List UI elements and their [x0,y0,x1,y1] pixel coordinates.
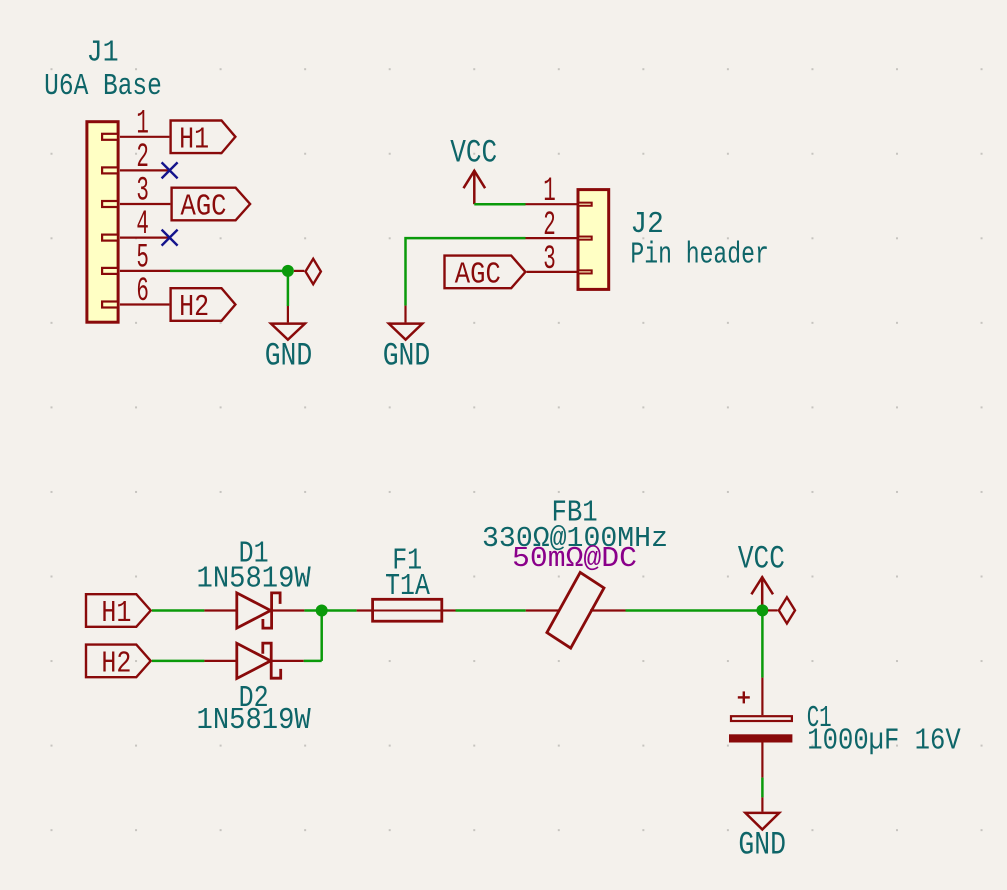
wire H2 to D2 anode [152,660,205,663]
svg-text:50mΩ@DC: 50mΩ@DC [512,542,637,575]
J1 pin 6 [102,302,169,308]
junction dot node B [316,605,328,617]
fuse F1 [357,599,456,621]
svg-text:1N5819W: 1N5819W [197,703,312,738]
svg-text:1: 1 [543,173,556,211]
svg-text:3: 3 [543,241,556,279]
J1 pin 2 [102,167,170,173]
J2 pin 2 [526,237,592,240]
svg-text:H1: H1 [179,122,209,157]
junction dot node A [282,265,294,277]
global label H1 on J1 pin 1 [171,121,236,158]
svg-text:AGC: AGC [455,258,501,293]
svg-text:6: 6 [136,273,149,311]
J1 pin 4 [102,235,170,241]
wire H1 to D1 anode [152,609,205,612]
global label AGC on J2 pin 3 [445,256,526,293]
J1 pin 3 [102,201,170,207]
connector J2 body [578,190,609,290]
svg-text:VCC: VCC [738,541,785,578]
ferrite bead FB1 [526,572,626,648]
wire F1 to FB1 [456,609,526,612]
wire GND riser to J2 pin 2 [406,238,526,306]
wire node C down to C1 [761,610,764,677]
global label H2 on J1 pin 6 [171,288,236,325]
svg-text:H2: H2 [179,290,209,325]
power flag diamond at node C [768,597,795,623]
svg-text:1: 1 [136,105,149,143]
svg-text:GND: GND [738,827,786,864]
svg-text:VCC: VCC [450,134,497,171]
svg-text:1000µF 16V: 1000µF 16V [807,723,961,758]
wire junction down to GND [287,271,290,306]
svg-text:4: 4 [136,206,149,244]
J1 pin 1 [102,134,169,140]
no-connect X on J1 pin 4 [162,230,178,246]
wire junction to fuse F1 [322,609,357,612]
wire C1 to GND [761,778,764,798]
svg-text:AGC: AGC [181,190,227,225]
ground symbol GND under node A [265,306,313,375]
J2 pin 3 [527,270,592,273]
J2 pin 1 [526,203,592,206]
J1 pin 5 [102,268,170,274]
diode D1 [204,593,304,628]
svg-text:U6A Base: U6A Base [44,69,162,104]
wire riser D2 to junction node B [320,611,323,661]
ground symbol GND under J2 pin 2 wire [383,306,431,375]
svg-text:2: 2 [136,139,149,177]
svg-text:J1: J1 [87,36,119,71]
global label AGC on J1 pin 3 [172,188,251,225]
svg-text:H2: H2 [101,647,131,682]
svg-text:3: 3 [136,173,149,211]
svg-text:GND: GND [383,338,431,375]
global label H2 (bottom) [86,645,151,682]
power symbol VCC at node C [738,541,785,611]
ground symbol GND under C1 [738,797,786,863]
wire J1 pin 5 to junction [170,270,288,273]
wire VCC to J2 pin 1 [474,203,525,206]
svg-text:H1: H1 [101,596,131,631]
no-connect X on J1 pin 2 [162,162,178,178]
power flag diamond at node A [294,259,321,284]
capacitor C1 [729,678,792,778]
junction dot node C [756,604,768,616]
power symbol VCC at J2 pin 1 [450,134,497,204]
wire FB1 to VCC node [626,609,763,612]
global label H1 (bottom) [86,594,151,631]
connector J1 body [87,122,118,323]
diode D2 [204,643,303,678]
svg-text:2: 2 [543,207,556,245]
svg-text:5: 5 [136,239,149,277]
wire D1 cathode to junction [304,609,321,612]
svg-text:T1A: T1A [385,569,430,604]
svg-text:GND: GND [265,338,313,375]
svg-text:Pin header: Pin header [630,238,768,273]
svg-text:1N5819W: 1N5819W [197,562,312,597]
wire D2 cathode to riser [304,660,322,663]
